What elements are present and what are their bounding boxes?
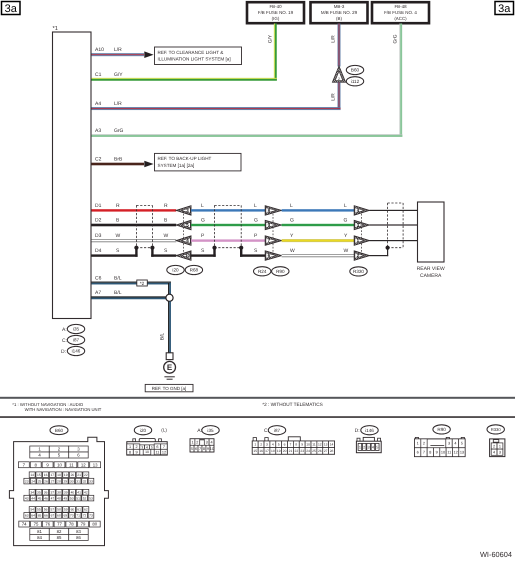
svg-text:80: 80 [92, 522, 97, 527]
svg-text:D4: D4 [95, 248, 102, 254]
svg-text:69: 69 [63, 514, 67, 518]
svg-text:8: 8 [129, 450, 131, 454]
wire L (set1-set2) [191, 203, 265, 212]
svg-text:2: 2 [260, 442, 262, 446]
svg-text:4: 4 [210, 440, 212, 444]
svg-text:65: 65 [38, 514, 42, 518]
svg-text:24: 24 [306, 449, 310, 453]
svg-text:4: 4 [272, 442, 274, 446]
audio/navigation unit *1 [53, 26, 92, 319]
svg-text:1: 1 [417, 442, 419, 446]
connector drawing A: i35 [190, 426, 219, 452]
svg-text:44: 44 [31, 496, 35, 500]
svg-text:REF. TO GND [a]: REF. TO GND [a] [152, 386, 187, 391]
svg-text:27: 27 [51, 479, 55, 483]
joint triangle 10 [176, 251, 191, 260]
svg-text:10: 10 [185, 253, 191, 258]
svg-text:G: G [290, 218, 294, 224]
joint triangle 6 [265, 251, 281, 260]
svg-text:G: G [254, 218, 258, 224]
wire L/R vertical from MB-3 (upper) [331, 24, 341, 67]
svg-text:D:: D: [61, 349, 66, 355]
svg-text:74: 74 [22, 522, 27, 527]
svg-text:WITH NAVIGATION : NAVIGATION: WITH NAVIGATION : NAVIGATION UNIT [25, 407, 102, 412]
svg-text:22: 22 [84, 473, 88, 477]
svg-text:1: 1 [129, 445, 131, 449]
ground symbol E [164, 361, 176, 373]
svg-text:55: 55 [37, 508, 41, 512]
joint triangle 4 (camera) [354, 206, 369, 215]
svg-text:20: 20 [71, 473, 75, 477]
svg-text:8: 8 [295, 442, 297, 446]
svg-text:86: 86 [76, 535, 81, 540]
svg-text:i146: i146 [365, 428, 374, 433]
svg-text:FB-48: FB-48 [394, 4, 407, 9]
separator rule 2 [0, 416, 515, 418]
svg-text:57: 57 [50, 508, 54, 512]
fuse box FB-40 F/B FUSE NO.19 (IG) [247, 2, 304, 23]
svg-text:72: 72 [83, 514, 87, 518]
pin C2 wire BrB to back-up light ref [92, 156, 145, 165]
svg-text:L: L [201, 203, 204, 209]
svg-text:*1: *1 [53, 26, 58, 32]
svg-text:D1: D1 [95, 203, 102, 209]
svg-text:60: 60 [71, 508, 75, 512]
svg-text:5: 5 [151, 445, 153, 449]
junction (option joint) circle [166, 294, 173, 301]
svg-text:53: 53 [89, 496, 93, 500]
svg-text:L/R: L/R [331, 35, 337, 43]
svg-text:REF. TO BACK-UP LIGHT: REF. TO BACK-UP LIGHT [158, 156, 212, 161]
camera shield drain wire [369, 248, 388, 257]
svg-text:L: L [344, 203, 347, 209]
svg-text:i146: i146 [72, 349, 81, 354]
separator rule [0, 397, 515, 399]
svg-text:18: 18 [57, 473, 61, 477]
svg-text:4: 4 [146, 445, 148, 449]
svg-text:26: 26 [318, 449, 322, 453]
joint triangle 2 (camera) [354, 251, 369, 260]
ref box back-up light system [155, 153, 242, 171]
svg-text:A7: A7 [95, 290, 101, 296]
svg-text:45: 45 [38, 496, 42, 500]
option box *2 [137, 280, 148, 286]
connector ref A: i35 [62, 324, 85, 333]
wire L/R vertical (lower) [331, 82, 341, 108]
pin D3 wire W [92, 233, 177, 242]
svg-text:46: 46 [44, 496, 48, 500]
svg-text:i35: i35 [207, 428, 214, 433]
svg-text:7: 7 [423, 451, 425, 455]
svg-text:78: 78 [69, 522, 74, 527]
svg-text:L/R: L/R [331, 93, 337, 101]
svg-text:C1: C1 [95, 72, 102, 78]
svg-text:21: 21 [289, 449, 293, 453]
svg-text:77: 77 [57, 522, 62, 527]
svg-text:63: 63 [25, 514, 29, 518]
svg-text:(IG): (IG) [272, 16, 280, 21]
shield dashed box 1 [136, 205, 152, 247]
svg-text:22: 22 [295, 449, 299, 453]
svg-text:6: 6 [284, 442, 286, 446]
svg-text:i20: i20 [140, 428, 147, 433]
connector drawing i20 (L) [127, 426, 168, 456]
svg-text:50: 50 [70, 496, 74, 500]
shield dashed box 3 [388, 203, 404, 248]
connector ref R90 [272, 267, 289, 276]
svg-text:10: 10 [441, 451, 445, 455]
svg-text:54: 54 [30, 508, 34, 512]
svg-text:56: 56 [44, 508, 48, 512]
svg-text:20: 20 [283, 449, 287, 453]
svg-text:3: 3 [206, 440, 208, 444]
svg-text:9: 9 [135, 450, 137, 454]
pin C1 wire G/Y [92, 72, 277, 81]
svg-text:5: 5 [376, 446, 378, 450]
svg-text:6: 6 [195, 447, 197, 451]
svg-text:9: 9 [436, 451, 438, 455]
svg-text:B60: B60 [55, 428, 64, 433]
svg-text:4: 4 [493, 451, 495, 455]
svg-text:i87: i87 [274, 428, 281, 433]
shield junction dot 3 [386, 246, 390, 250]
svg-text:84: 84 [37, 535, 42, 540]
svg-text:i87: i87 [73, 338, 80, 343]
svg-text:i35: i35 [73, 327, 80, 332]
svg-text:A:: A: [197, 428, 202, 434]
svg-text:26: 26 [44, 479, 48, 483]
joint triangle 8 [265, 206, 281, 215]
svg-text:61: 61 [77, 508, 81, 512]
pin A4 wire L/R [92, 101, 341, 110]
svg-text:32: 32 [83, 479, 87, 483]
wire P (set1-set2) [191, 233, 265, 242]
svg-text:L/R: L/R [114, 47, 122, 53]
grid label 3a top-left [2, 2, 21, 16]
svg-text:WI-60604: WI-60604 [480, 550, 512, 559]
svg-text:F/B FUSE NO. 19: F/B FUSE NO. 19 [258, 10, 294, 15]
svg-text:24: 24 [31, 479, 35, 483]
svg-text:81: 81 [37, 529, 42, 534]
svg-text:9: 9 [207, 447, 209, 451]
joint connector dashed link set1 [183, 210, 185, 255]
svg-text:MB-3: MB-3 [334, 4, 345, 9]
svg-text:36: 36 [44, 490, 48, 494]
svg-text:D:: D: [355, 428, 360, 434]
svg-text:R: R [116, 203, 120, 209]
svg-text:8: 8 [203, 447, 205, 451]
svg-text:4: 4 [372, 446, 374, 450]
wire Y (set2-set3) [282, 233, 355, 242]
svg-text:i20: i20 [172, 268, 179, 273]
grid label 3a top-right [495, 2, 514, 16]
joint triangle 3 (camera) [354, 220, 369, 229]
svg-text:31: 31 [76, 479, 80, 483]
svg-text:(ACC): (ACC) [394, 16, 407, 21]
connector ref R68 [185, 265, 202, 274]
pin C6 wire B/L with *2 [92, 276, 172, 295]
arrow to ref (back-up light) [144, 161, 153, 168]
svg-text:SYSTEM [1a] [2a]: SYSTEM [1a] [2a] [158, 163, 195, 168]
ground hatching [164, 377, 174, 379]
shield dashed box 2 [215, 205, 242, 247]
svg-text:17: 17 [265, 449, 269, 453]
svg-text:9: 9 [301, 442, 303, 446]
svg-text:G: G [201, 218, 205, 224]
svg-text:12: 12 [81, 462, 86, 467]
svg-text:C6: C6 [95, 276, 102, 282]
svg-text:3: 3 [448, 442, 450, 446]
svg-text:1: 1 [191, 440, 193, 444]
svg-text:R90: R90 [437, 427, 446, 432]
svg-text:12: 12 [162, 450, 166, 454]
svg-text:75: 75 [34, 522, 39, 527]
svg-text:B/L: B/L [159, 333, 165, 341]
svg-text:37: 37 [50, 490, 54, 494]
svg-text:73: 73 [89, 514, 93, 518]
svg-text:G/Y: G/Y [268, 34, 274, 43]
svg-text:11: 11 [447, 451, 451, 455]
svg-text:3: 3 [266, 442, 268, 446]
svg-text:2: 2 [493, 444, 495, 448]
document number [480, 550, 512, 559]
svg-text:1: 1 [499, 444, 501, 448]
svg-text:29: 29 [63, 479, 67, 483]
pin A3 wire GrG [92, 128, 403, 137]
svg-text:12: 12 [453, 451, 457, 455]
svg-text:68: 68 [57, 514, 61, 518]
svg-text:35: 35 [37, 490, 41, 494]
svg-text:G/Y: G/Y [114, 72, 123, 78]
svg-text:C:: C: [62, 338, 67, 344]
connector drawing R330 [487, 425, 505, 457]
svg-text:(L): (L) [161, 427, 167, 432]
joint triangle 4 [176, 236, 191, 245]
svg-text:11: 11 [155, 450, 159, 454]
svg-text:GrG: GrG [114, 128, 124, 134]
joint connector dashed link set3 [361, 210, 363, 255]
svg-text:4: 4 [454, 442, 456, 446]
pin D4 shield wire S [92, 248, 177, 257]
connector ref i112 [346, 77, 363, 86]
svg-text:16: 16 [259, 449, 263, 453]
connector ref R24 [254, 267, 271, 276]
svg-text:48: 48 [57, 496, 61, 500]
svg-text:14: 14 [330, 442, 334, 446]
ground terminal square [166, 353, 173, 360]
svg-text:C2: C2 [95, 156, 102, 162]
joint triangle 3 [176, 206, 191, 215]
svg-text:F/B FUSE NO. 4: F/B FUSE NO. 4 [384, 10, 417, 15]
connector drawing R90 [415, 425, 466, 457]
connector ref B60 [346, 65, 363, 74]
connector drawing C: i87 [252, 426, 334, 455]
svg-text:FB-40: FB-40 [269, 4, 282, 9]
svg-text:*2: *2 [140, 281, 145, 286]
svg-text:6: 6 [417, 451, 419, 455]
svg-text:17: 17 [50, 473, 54, 477]
connector ref D: i146 [61, 346, 85, 355]
svg-text:28: 28 [57, 479, 61, 483]
svg-text:79: 79 [81, 522, 86, 527]
svg-text:R68: R68 [190, 268, 199, 273]
svg-text:A3: A3 [95, 128, 101, 134]
svg-text:15: 15 [253, 449, 257, 453]
svg-text:66: 66 [44, 514, 48, 518]
svg-text:A10: A10 [95, 47, 104, 53]
svg-text:13: 13 [460, 451, 464, 455]
svg-text:3: 3 [499, 451, 501, 455]
svg-text:49: 49 [63, 496, 67, 500]
svg-text:23: 23 [300, 449, 304, 453]
svg-text:85: 85 [57, 535, 62, 540]
svg-text:W: W [116, 233, 121, 239]
svg-text:10: 10 [145, 450, 149, 454]
svg-text:A:: A: [62, 327, 67, 333]
svg-text:16: 16 [44, 473, 48, 477]
svg-text:2: 2 [338, 77, 340, 81]
shield junction dots 1 [134, 246, 154, 250]
svg-text:13: 13 [93, 462, 98, 467]
svg-text:3a: 3a [498, 3, 511, 15]
connector ref R330 [350, 267, 367, 276]
wire L (set2-set3) [282, 203, 355, 212]
pin D2 wire B [92, 218, 177, 227]
svg-text:2: 2 [135, 445, 137, 449]
svg-text:REAR VIEW: REAR VIEW [417, 266, 445, 272]
svg-text:R330: R330 [353, 269, 364, 274]
connector drawing B60 [9, 426, 108, 546]
joint connector dashed link set2 [272, 210, 274, 255]
svg-text:W: W [164, 233, 169, 239]
svg-text:7: 7 [290, 442, 292, 446]
svg-text:47: 47 [51, 496, 55, 500]
svg-text:R24: R24 [258, 269, 267, 274]
svg-text:34: 34 [30, 490, 34, 494]
svg-text:A4: A4 [95, 101, 101, 107]
svg-text:G: G [344, 218, 348, 224]
svg-text:10: 10 [210, 447, 214, 451]
fuse box FB-48 F/B FUSE NO.4 (ACC) [372, 2, 429, 23]
svg-text:5: 5 [191, 447, 193, 451]
joint connector triangle B60/i112 [332, 66, 345, 82]
svg-text:L: L [290, 203, 293, 209]
svg-text:19: 19 [277, 449, 281, 453]
svg-text:3: 3 [141, 445, 143, 449]
svg-text:6: 6 [156, 445, 158, 449]
joint triangle 5 [176, 220, 191, 229]
rear view camera unit [417, 202, 445, 279]
joint triangle 7 [265, 236, 281, 245]
wire G (set1-set2) [191, 218, 265, 227]
svg-text:L/R: L/R [114, 101, 122, 107]
svg-text:15: 15 [37, 473, 41, 477]
svg-text:8: 8 [429, 451, 431, 455]
svg-text:30: 30 [70, 479, 74, 483]
svg-text:13: 13 [324, 442, 328, 446]
svg-text:2: 2 [196, 440, 198, 444]
svg-text:39: 39 [64, 490, 68, 494]
svg-text:19: 19 [64, 473, 68, 477]
svg-text:CAMERA: CAMERA [420, 273, 442, 279]
fuse box MB-3 M/B FUSE NO.29 (B) [311, 2, 368, 23]
svg-text:23: 23 [25, 479, 29, 483]
svg-text:10: 10 [57, 462, 62, 467]
svg-text:D2: D2 [95, 218, 102, 224]
svg-text:33: 33 [89, 479, 93, 483]
note *1 [12, 402, 101, 412]
svg-text:51: 51 [76, 496, 80, 500]
svg-text:27: 27 [324, 449, 328, 453]
svg-text:21: 21 [77, 473, 81, 477]
svg-text:62: 62 [84, 508, 88, 512]
svg-text:42: 42 [84, 490, 88, 494]
svg-text:28: 28 [330, 449, 334, 453]
svg-text:D3: D3 [95, 233, 102, 239]
joint triangle 1 (camera) [354, 236, 369, 245]
svg-text:38: 38 [57, 490, 61, 494]
svg-text:REF. TO CLEARANCE LIGHT &: REF. TO CLEARANCE LIGHT & [158, 50, 224, 55]
svg-text:ILLUMINATION LIGHT SYSTEM [a]: ILLUMINATION LIGHT SYSTEM [a] [158, 56, 231, 61]
svg-text:i112: i112 [351, 79, 360, 84]
svg-text:12: 12 [318, 442, 322, 446]
wire GrG vertical from FB-48 [392, 24, 402, 136]
ref box clearance light system [155, 47, 242, 65]
note *2 [262, 402, 322, 407]
svg-text:41: 41 [77, 490, 81, 494]
svg-text:18: 18 [271, 449, 275, 453]
svg-text:64: 64 [31, 514, 35, 518]
svg-text:3a: 3a [5, 3, 18, 15]
pin A7 wire B/L [92, 290, 167, 299]
pin A10 wire L/R to clearance light ref [92, 47, 145, 56]
wire B/L to ground [159, 301, 171, 353]
svg-text:2: 2 [423, 442, 425, 446]
svg-text:E: E [167, 363, 173, 372]
svg-text:40: 40 [71, 490, 75, 494]
svg-text:5: 5 [278, 442, 280, 446]
svg-text:43: 43 [25, 496, 29, 500]
svg-text:3: 3 [368, 446, 370, 450]
wire W (set2-set3) [282, 248, 355, 257]
svg-text:11: 11 [69, 462, 74, 467]
svg-text:67: 67 [51, 514, 55, 518]
svg-text:L: L [254, 203, 257, 209]
svg-text:GrG: GrG [392, 34, 398, 43]
joint triangle 9 [265, 220, 281, 229]
svg-text:R: R [164, 203, 168, 209]
svg-text:1: 1 [254, 442, 256, 446]
svg-text:71: 71 [76, 514, 80, 518]
svg-text:BrB: BrB [114, 156, 123, 162]
svg-text:10: 10 [306, 442, 310, 446]
svg-text:W: W [290, 248, 295, 254]
svg-text:76: 76 [45, 522, 50, 527]
svg-text:B/L: B/L [114, 276, 122, 282]
svg-text:1: 1 [359, 446, 361, 450]
svg-text:83: 83 [76, 529, 81, 534]
svg-text:M/B FUSE NO. 29: M/B FUSE NO. 29 [321, 10, 358, 15]
svg-text:*2 : WITHOUT TELEMATICS: *2 : WITHOUT TELEMATICS [262, 402, 322, 407]
svg-text:25: 25 [38, 479, 42, 483]
svg-text:(B): (B) [336, 16, 342, 21]
svg-text:82: 82 [57, 529, 62, 534]
svg-text:59: 59 [64, 508, 68, 512]
connector ref i20 [167, 265, 184, 274]
svg-text:W: W [344, 248, 349, 254]
wire G (set2-set3) [282, 218, 355, 227]
camera lead wire 2 [369, 224, 417, 225]
